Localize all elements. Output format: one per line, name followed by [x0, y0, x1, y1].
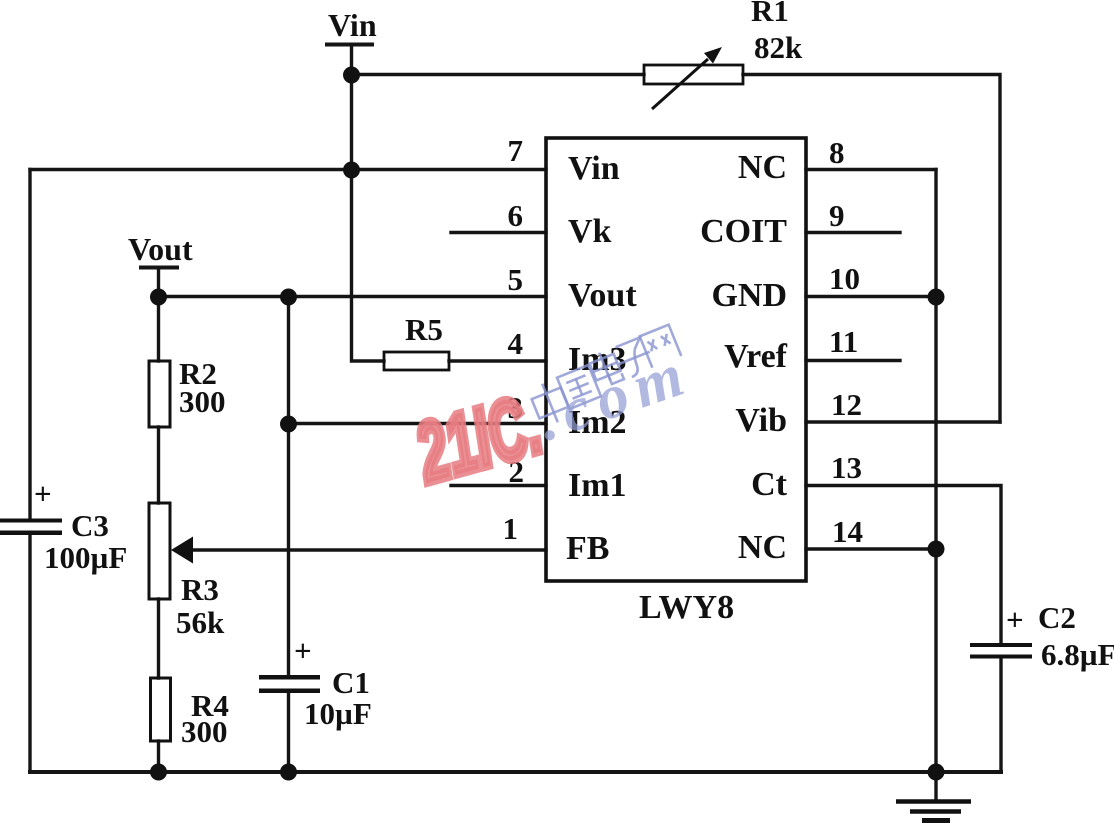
capacitor C2 plates: [970, 643, 1032, 659]
wire pin 2 stub: [451, 484, 546, 487]
wire left bus lower: [28, 534, 31, 772]
svg-text:100µF: 100µF: [44, 540, 127, 575]
char zi: [612, 336, 656, 380]
wire C2 to bottom bus: [999, 658, 1002, 772]
svg-text:R5: R5: [405, 312, 443, 347]
svg-text:10: 10: [829, 261, 860, 296]
svg-text:6.8µF: 6.8µF: [1041, 637, 1114, 672]
char guo: [557, 365, 601, 409]
terminal Vout bar: [141, 266, 177, 270]
capacitor C3 plates: [0, 519, 62, 536]
wire R5 to pin 4: [449, 359, 546, 362]
svg-text:Vin: Vin: [328, 7, 377, 43]
svg-text:56k: 56k: [176, 605, 225, 640]
svg-text:Ct: Ct: [751, 466, 788, 503]
wire pin 3 row: [289, 422, 547, 425]
wire top row to R1: [352, 73, 645, 76]
svg-text:+: +: [34, 476, 52, 511]
wire pin 8 row: [806, 168, 936, 171]
char dian: [587, 348, 624, 389]
wire pin 5 row: [159, 295, 547, 298]
svg-text:C1: C1: [332, 665, 370, 700]
terminal Vin bar: [327, 43, 372, 47]
R1 arrow diagonal: [652, 59, 708, 109]
wire pin 7 row from left bus: [30, 168, 546, 171]
node pin3 junction: [280, 416, 297, 433]
svg-text:Vref: Vref: [724, 338, 788, 375]
wire Vout node down to R2: [157, 297, 160, 362]
wire pin 6 stub: [451, 231, 546, 234]
node pin5 mid junction: [280, 289, 297, 306]
wire right mid bus: [934, 170, 937, 773]
ground symbol: [896, 802, 971, 821]
watermark com script blue: [528, 338, 700, 454]
svg-text:13: 13: [831, 450, 862, 485]
svg-text:82k: 82k: [754, 30, 803, 65]
wire pin 12 row: [806, 420, 1000, 423]
char wang: [640, 325, 682, 368]
left pin numbers: [503, 133, 525, 546]
wire R2 to R3: [157, 427, 160, 503]
svg-text:300: 300: [179, 384, 226, 419]
node bottom ground junction: [928, 764, 945, 781]
node bottom C1 junction: [280, 764, 297, 781]
capacitor C1 plates: [259, 675, 320, 693]
IC right pin names: [700, 149, 788, 566]
resistor R2 body: [149, 361, 170, 427]
svg-text:+: +: [1006, 602, 1024, 637]
svg-text:R3: R3: [181, 572, 219, 607]
svg-text:11: 11: [829, 324, 858, 359]
resistor R5 body: [384, 352, 449, 370]
svg-text:NC: NC: [738, 529, 787, 566]
wire pin 9 stub: [806, 231, 900, 234]
svg-text:C3: C3: [71, 508, 109, 543]
svg-text:7: 7: [508, 133, 524, 168]
svg-text:12: 12: [831, 387, 862, 422]
svg-text:LWY8: LWY8: [639, 589, 734, 626]
wire pin 13 row to C2 column: [806, 486, 1001, 644]
wire Vout stub: [157, 269, 160, 297]
svg-text:5: 5: [508, 262, 524, 297]
wire left bus upper: [28, 170, 31, 520]
wire pin 14 row: [806, 547, 936, 550]
resistor R1 (variable) body: [644, 47, 743, 109]
svg-text:10µF: 10µF: [304, 696, 372, 731]
node Vout junction: [150, 289, 167, 306]
wire R1 to right corner down to pin 12: [743, 75, 1000, 423]
watermark chinese chars blue: [528, 325, 682, 428]
svg-text:Vout: Vout: [568, 277, 637, 314]
svg-text:NC: NC: [738, 149, 787, 186]
svg-text:Vk: Vk: [568, 213, 612, 250]
svg-text:9: 9: [829, 198, 845, 233]
node Vin top junction: [343, 67, 360, 84]
svg-text:C2: C2: [1038, 600, 1076, 635]
wire R4 to bottom bus: [157, 741, 160, 772]
svg-text:Vout: Vout: [128, 231, 193, 267]
node GND pin10 junction: [928, 289, 945, 306]
node bottom R4 junction: [150, 764, 167, 781]
svg-text:COIT: COIT: [700, 213, 787, 250]
wire Vin vertical to R5 corner: [352, 46, 385, 361]
resistor R4 body: [151, 678, 171, 741]
node pin14 junction: [928, 541, 945, 558]
svg-text:+: +: [294, 633, 312, 668]
wire mid column node down to C1: [287, 297, 290, 676]
wire ground stub: [934, 772, 937, 799]
IC U1 LWY8 body: [546, 138, 806, 581]
char zhong: [528, 378, 573, 428]
watermark 21IC pink: [405, 375, 551, 500]
svg-text:14: 14: [832, 514, 863, 549]
svg-text:Im1: Im1: [568, 467, 627, 504]
svg-text:FB: FB: [566, 530, 609, 567]
wire pin 11 stub: [806, 359, 900, 362]
R3 wiper arrow: [171, 537, 193, 564]
svg-text:8: 8: [829, 135, 845, 170]
svg-text:Vin: Vin: [568, 150, 620, 187]
right pin numbers: [829, 135, 863, 549]
IC left pin names: [566, 150, 637, 567]
svg-text:6: 6: [508, 198, 524, 233]
potentiometer R3 body: [149, 503, 170, 599]
svg-text:R1: R1: [751, 0, 789, 28]
svg-text:GND: GND: [711, 277, 787, 314]
wire R3 to R4: [157, 599, 160, 678]
svg-text:4: 4: [508, 326, 524, 361]
wire pin 1 FB row to R3 wiper: [190, 548, 546, 551]
svg-text:300: 300: [181, 714, 228, 749]
svg-text:1: 1: [503, 511, 519, 546]
wire C1 to bottom bus: [287, 693, 290, 772]
wire pin 10 row: [806, 295, 936, 298]
node pin7 junction: [343, 162, 360, 179]
wire bottom bus: [30, 770, 1001, 774]
svg-text:Vib: Vib: [735, 402, 787, 439]
